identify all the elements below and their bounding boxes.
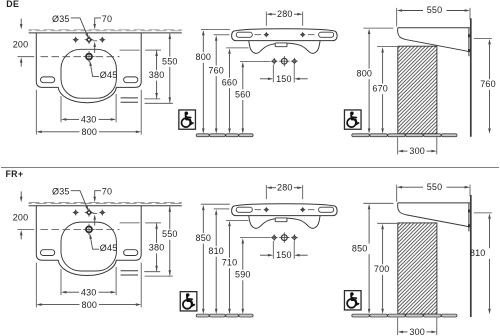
dimension 550 (DE front view)	[145, 102, 173, 104]
svg-text:760: 760	[208, 65, 224, 75]
dimension 550 (FR+ side view)	[396, 185, 398, 202]
svg-text:810: 810	[208, 246, 224, 256]
dimension 800 (DE middle view)	[201, 29, 230, 31]
wall face line (DE front view)	[29, 32, 182, 34]
svg-text:280: 280	[277, 9, 293, 19]
centre dashed line (FR+ front view)	[18, 229, 35, 231]
dimension 800 (FR+ front view)	[35, 263, 37, 308]
underside profile (FR+ middle view)	[249, 216, 320, 229]
svg-text:300: 300	[409, 327, 425, 336]
dimension 380 (DE front view)	[120, 49, 140, 51]
right fixing slot (DE front view)	[124, 77, 138, 83]
wheelchair accessibility icon (FR+ side view)	[344, 291, 361, 310]
dimension 200 (FR+ front view)	[20, 191, 22, 197]
svg-text:FR+: FR+	[6, 169, 24, 179]
drain hole Ø45 (FR+ front view)	[86, 226, 92, 232]
dimension 800 (DE side view)	[363, 27, 393, 29]
fixing bolt upper (FR+ side view)	[468, 210, 470, 213]
alternative tap hole left (FR+ front view)	[74, 211, 78, 215]
right fixing slot (FR+ front view)	[124, 250, 138, 256]
svg-text:700: 700	[374, 264, 390, 274]
dimension 760 (DE middle view)	[214, 34, 230, 36]
dimension 430 (FR+ front view)	[60, 269, 62, 295]
dimension 800 (DE front view)	[35, 90, 37, 135]
svg-text:550: 550	[162, 229, 178, 239]
svg-text:280: 280	[277, 183, 293, 193]
svg-text:800: 800	[195, 52, 211, 62]
dimension 380 (FR+ front view)	[120, 222, 140, 224]
floor line (DE middle view)	[196, 134, 253, 137]
alternative tap hole left (DE front view)	[74, 38, 78, 42]
dimension 850 (FR+ middle view)	[201, 203, 230, 205]
svg-text:810: 810	[470, 248, 486, 258]
dimension 200 (DE front view)	[20, 19, 22, 25]
fixing bolt upper (DE side view)	[468, 34, 470, 37]
fixing hole left (FR+ middle view)	[265, 208, 268, 211]
wall section line (DE side view)	[470, 18, 472, 137]
clearance zone hatched (FR+ side view)	[398, 223, 437, 314]
centre line dashes (FR+ middle view)	[255, 209, 261, 211]
wheelchair accessibility icon (FR+ middle view)	[180, 292, 197, 311]
wall section hatched line (FR+ front view)	[29, 203, 182, 204]
dimension 560 (DE middle view)	[240, 60, 270, 62]
left fixing slot (FR+ front view)	[41, 250, 55, 256]
fixing bolt lower (FR+ side view)	[468, 224, 470, 227]
svg-text:Ø45: Ø45	[100, 70, 118, 80]
wall section hatched line (DE front view)	[29, 30, 182, 31]
dimension 850 (FR+ side view)	[363, 202, 393, 204]
svg-text:70: 70	[102, 187, 112, 197]
svg-text:150: 150	[276, 250, 292, 260]
wheelchair accessibility icon (DE middle view)	[179, 110, 196, 129]
svg-text:660: 660	[222, 78, 238, 88]
dimension 280 (DE middle view)	[265, 12, 267, 26]
water connection right (FR+ middle view)	[292, 235, 296, 239]
left slot (FR+ middle view)	[236, 207, 252, 212]
svg-text:550: 550	[427, 182, 443, 192]
alternative tap hole right (DE front view)	[100, 38, 104, 42]
svg-text:850: 850	[352, 244, 368, 254]
wall face line (FR+ front view)	[29, 205, 182, 207]
centre dashed line (DE front view)	[18, 56, 35, 58]
dimension 670 (DE side view)	[377, 46, 397, 48]
svg-text:200: 200	[13, 40, 29, 50]
svg-text:590: 590	[235, 270, 251, 280]
svg-text:760: 760	[480, 79, 496, 89]
dimension 150 (FR+ middle view)	[272, 241, 274, 259]
svg-text:850: 850	[195, 233, 211, 243]
basin side profile (DE side view)	[398, 27, 470, 29]
drain connection (FR+ middle view)	[281, 235, 287, 241]
centre line dashes (DE middle view)	[255, 34, 261, 36]
dimension 300 (DE side view)	[397, 137, 399, 154]
svg-text:800: 800	[81, 127, 97, 137]
dimension 660 (DE middle view)	[226, 47, 248, 49]
dimension 150 (DE middle view)	[272, 65, 274, 83]
dimension 810 (FR+ side view)	[474, 212, 492, 214]
row separator line	[1, 166, 499, 168]
drain cover plate (DE middle view)	[275, 43, 287, 47]
shelf marks (FR+ front view)	[121, 270, 138, 272]
svg-text:710: 710	[222, 258, 238, 268]
left fixing slot (DE front view)	[41, 77, 55, 83]
fixing bolt lower (DE side view)	[468, 49, 470, 52]
water connection left (FR+ middle view)	[272, 235, 276, 239]
basin side profile (FR+ side view)	[398, 202, 470, 204]
right slot (FR+ middle view)	[319, 207, 334, 212]
shelf marks (DE front view)	[121, 97, 138, 99]
dimension 550 (DE side view)	[396, 8, 398, 27]
left slot (DE middle view)	[236, 32, 252, 37]
bowl outline (DE front view)	[61, 49, 116, 98]
svg-text:300: 300	[409, 146, 425, 156]
basin rear edge at wall (FR+ side view)	[468, 203, 470, 232]
dimension 760 (DE side view)	[474, 38, 492, 40]
washbasin body front elevation (FR+ middle view)	[232, 204, 338, 216]
dimension 810 (FR+ middle view)	[214, 208, 230, 210]
tap hole centre marker Ø35 (FR+ front view)	[86, 210, 92, 216]
floor line (DE side view)	[352, 134, 457, 137]
svg-text:430: 430	[81, 287, 97, 297]
washbasin outline with apron (DE front view)	[36, 33, 141, 103]
svg-text:550: 550	[162, 56, 178, 66]
basin rear edge at wall (DE side view)	[468, 28, 470, 57]
svg-text:380: 380	[149, 70, 165, 80]
fixing hole left (DE middle view)	[265, 33, 268, 36]
svg-text:150: 150	[276, 74, 292, 84]
bowl outline (FR+ front view)	[61, 222, 116, 271]
washbasin outline with apron (FR+ front view)	[36, 206, 141, 276]
drain cover plate (FR+ middle view)	[275, 218, 287, 222]
dimension 300 (FR+ side view)	[397, 318, 399, 336]
dimension 710 (FR+ middle view)	[226, 219, 248, 221]
svg-text:800: 800	[81, 300, 97, 310]
svg-text:Ø35: Ø35	[52, 187, 70, 197]
svg-text:200: 200	[13, 212, 29, 222]
wheelchair accessibility icon (DE side view)	[344, 110, 361, 129]
svg-text:Ø45: Ø45	[100, 243, 118, 253]
svg-text:800: 800	[357, 69, 373, 79]
svg-text:670: 670	[372, 84, 388, 94]
svg-text:560: 560	[235, 89, 251, 99]
svg-text:70: 70	[102, 14, 112, 24]
svg-text:380: 380	[149, 243, 165, 253]
tap hole centre marker Ø35 (DE front view)	[86, 37, 92, 43]
wall section line (FR+ side view)	[470, 195, 472, 317]
drain hole Ø45 (DE front view)	[86, 54, 92, 60]
alternative tap hole right (FR+ front view)	[100, 211, 104, 215]
water connection left (DE middle view)	[272, 59, 276, 63]
right slot (DE middle view)	[319, 32, 334, 37]
fixing hole right (DE middle view)	[301, 33, 304, 36]
drain connection (DE middle view)	[281, 58, 287, 64]
svg-text:430: 430	[81, 115, 97, 125]
dimension 550 (FR+ front view)	[145, 275, 173, 277]
dimension 430 (DE front view)	[60, 96, 62, 122]
water connection right (DE middle view)	[292, 59, 296, 63]
svg-text:DE: DE	[6, 0, 19, 9]
dimension 280 (FR+ middle view)	[265, 185, 267, 199]
dimension 700 (FR+ side view)	[377, 222, 397, 224]
clearance zone hatched (DE side view)	[398, 46, 437, 134]
dimension 590 (FR+ middle view)	[240, 237, 270, 239]
svg-text:550: 550	[427, 5, 443, 15]
floor line (FR+ side view)	[352, 314, 457, 317]
svg-text:Ø35: Ø35	[52, 14, 70, 24]
underside profile (DE middle view)	[249, 41, 320, 54]
washbasin body front elevation (DE middle view)	[232, 29, 338, 41]
fixing hole right (FR+ middle view)	[301, 208, 304, 211]
floor line (FR+ middle view)	[196, 314, 253, 317]
